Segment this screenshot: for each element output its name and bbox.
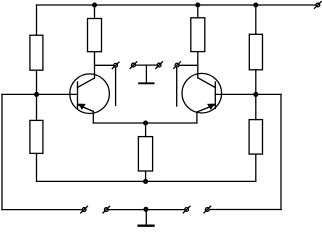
resistor R2 — [30, 120, 43, 153]
wire R4 to Q2 collector — [197, 52, 199, 78]
wire left edge vertical — [1, 94, 3, 209]
wire R5 to lower rail — [145, 171, 147, 181]
terminal VCC top right — [315, 2, 322, 9]
transistor Q2 — [182, 73, 222, 113]
node bottom ground junction — [144, 207, 148, 211]
wire base of Q1 — [2, 93, 78, 95]
wire R3 to Q1 collector — [94, 52, 96, 78]
wire stub below T1 — [115, 67, 117, 105]
wire right base node to R7 — [255, 94, 257, 119]
terminal B4 bottom right — [204, 206, 211, 213]
node emitter rail junction — [144, 121, 148, 125]
wire bottom middle segment — [108, 209, 184, 211]
wire right edge vertical — [280, 94, 282, 209]
wire emitter rail — [93, 122, 197, 124]
wire collector branch to terminal T1 — [95, 64, 114, 66]
resistor R6 — [249, 34, 262, 70]
resistor R5 — [138, 137, 152, 171]
wire base of Q2 — [215, 93, 281, 95]
resistor R7 — [249, 120, 262, 155]
wire R6 to right base node — [255, 70, 257, 95]
terminal T3 center-left — [130, 62, 137, 69]
wire between T3 and T4 — [135, 64, 157, 66]
terminal B1 bottom left — [81, 206, 88, 213]
ground bottom — [139, 210, 154, 226]
terminal B2 bottom left inner — [103, 206, 110, 213]
resistor R1 — [30, 35, 43, 70]
wire R7 to lower rail — [255, 154, 257, 181]
wire left column from top rail to R1 — [36, 5, 38, 35]
wire top supply rail — [37, 4, 316, 6]
ground top middle — [139, 65, 154, 83]
wire R1 to left base node — [36, 70, 38, 94]
wire bottom left segment — [2, 209, 82, 211]
terminal T2 — [174, 62, 181, 69]
terminal T1 — [112, 62, 119, 69]
wire R2 to lower rail — [37, 153, 256, 181]
wire top rail to R3 — [94, 5, 96, 19]
node junction top outer-right — [254, 3, 258, 7]
node left base junction — [35, 93, 39, 97]
wire left base node to R2 — [36, 94, 38, 120]
transistor Q1 — [70, 74, 110, 114]
wire bottom right segment — [209, 209, 281, 211]
wire Q2 emitter down — [196, 112, 198, 123]
wire emitter node to R5 — [145, 123, 147, 137]
resistor R4 — [191, 18, 205, 52]
node lower rail junction — [144, 180, 148, 184]
resistor R3 — [88, 19, 102, 52]
wire top rail to R6 — [255, 5, 257, 34]
node junction top inner-left — [93, 3, 97, 7]
wire stub below T2 — [176, 67, 178, 106]
wire top rail to R4 — [197, 5, 199, 18]
node junction top inner-right — [196, 3, 200, 7]
wire collector branch to terminal T2 — [179, 64, 198, 66]
node right base junction — [254, 93, 258, 97]
terminal B3 bottom right inner — [183, 206, 190, 213]
terminal T4 center-right — [156, 62, 163, 69]
wire Q1 emitter down — [92, 111, 94, 123]
